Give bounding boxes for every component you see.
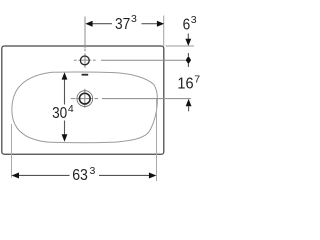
svg-text:16: 16 (177, 76, 193, 93)
washbasin outer edge (2, 46, 164, 154)
svg-text:3: 3 (90, 165, 96, 177)
extension line right (63.3) (156, 99, 158, 182)
dimension 63.3 left arrow (12, 173, 20, 179)
overflow slot dash (82, 74, 89, 76)
dimension 37.3 left arrow (85, 21, 92, 27)
tap hole centerline vertical dash-dot (84, 49, 86, 68)
tap hole centerline horizontal (74, 59, 186, 61)
dimension 37.3 line (93, 23, 158, 25)
svg-text:30: 30 (52, 105, 67, 122)
dimension 30.4 bottom arrow (62, 134, 68, 141)
dimension 63.3 line (19, 174, 150, 176)
drain outer circle (77, 91, 93, 107)
extension line right of 37.3 above basin (163, 16, 165, 47)
drain inner ring (79, 93, 90, 104)
svg-text:7: 7 (194, 73, 200, 85)
dimension 30.4 top arrow (62, 72, 68, 79)
svg-text:63: 63 (72, 167, 88, 184)
extension of top edge to right (166, 45, 195, 47)
diamond marker on tap centerline (187, 53, 189, 67)
svg-text:4: 4 (68, 103, 74, 115)
extension tick left of 37.3 (84, 17, 86, 49)
drain centerline vertical (84, 89, 86, 108)
dimension 16.7 arrow (186, 99, 192, 106)
extension line left (63.3) (11, 124, 13, 178)
drain centerline horizontal (71, 98, 191, 100)
dimension 30.4 line (64, 80, 66, 135)
tap hole (80, 56, 89, 65)
dimension 6.3 arrow (185, 39, 191, 46)
svg-text:37: 37 (115, 16, 130, 33)
svg-text:6: 6 (183, 17, 191, 34)
dimension 6.3 tail (187, 34, 189, 40)
dimension 63.3 right arrow (149, 173, 157, 179)
svg-text:3: 3 (131, 13, 137, 25)
svg-text:3: 3 (191, 14, 197, 26)
inner bowl outline (12, 72, 158, 143)
dimension 16.7 tail (188, 106, 190, 111)
dimension 37.3 right arrow (157, 21, 164, 27)
